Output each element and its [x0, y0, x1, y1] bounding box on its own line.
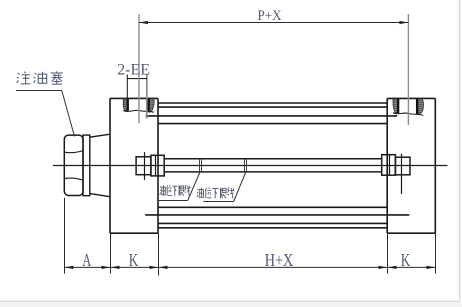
svg-text:A: A: [82, 250, 91, 270]
svg-text:K: K: [401, 250, 411, 270]
svg-text:P+X: P+X: [258, 8, 282, 24]
svg-text:H+X: H+X: [265, 250, 294, 270]
svg-text:K: K: [129, 250, 139, 270]
svg-text:2-EE: 2-EE: [117, 61, 150, 78]
